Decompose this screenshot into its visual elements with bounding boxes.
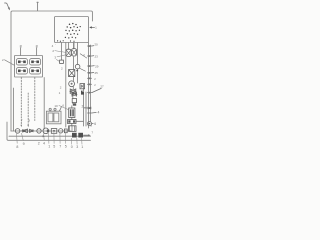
svg-text:4: 4	[43, 141, 45, 145]
svg-text:7: 7	[59, 144, 61, 148]
svg-text:1: 1	[48, 144, 50, 148]
svg-text:8: 8	[36, 45, 38, 49]
svg-text:5: 5	[53, 144, 55, 148]
svg-text:5: 5	[65, 144, 67, 148]
svg-text:6: 6	[94, 122, 96, 126]
svg-text:2: 2	[38, 141, 40, 145]
svg-text:0: 0	[71, 145, 73, 149]
svg-text:4: 4	[97, 110, 99, 114]
svg-text:9: 9	[23, 142, 25, 146]
svg-text:25: 25	[95, 71, 99, 75]
svg-text:2: 2	[81, 104, 83, 108]
svg-text:1: 1	[81, 145, 83, 149]
svg-text:8: 8	[20, 45, 22, 49]
svg-text:3: 3	[76, 145, 78, 149]
svg-text:10: 10	[54, 104, 58, 108]
svg-text:23: 23	[95, 54, 99, 58]
svg-text:20: 20	[94, 43, 98, 47]
svg-text:29: 29	[95, 64, 99, 68]
svg-text:8: 8	[16, 145, 18, 149]
svg-text:27: 27	[100, 85, 104, 89]
